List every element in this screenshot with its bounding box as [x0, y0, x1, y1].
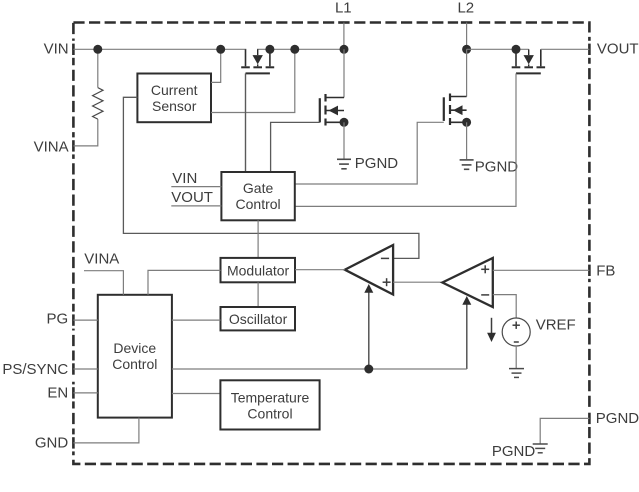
pin label PGND (right) [596, 410, 639, 427]
wire Q3 source to PGND [466, 122, 468, 159]
node VIN/resistor junction [93, 45, 102, 54]
wire U6 inverting input to VREF [493, 295, 516, 318]
pin label EN [47, 385, 68, 402]
wire EN pin [73, 392, 97, 394]
svg-text:VINA: VINA [34, 139, 69, 156]
svg-text:Control: Control [112, 356, 157, 372]
wire Q1 gate to gate control [245, 73, 247, 172]
node VINA internal label [84, 251, 119, 268]
ground (below VREF) [509, 369, 524, 378]
wire current sensor upper tap to VIN rail [211, 49, 221, 82]
current sensor U1 [137, 74, 211, 123]
node current sensor tap right [290, 45, 299, 54]
svg-text:Current: Current [151, 82, 198, 98]
wire Q4 gate to gate control [295, 73, 516, 206]
ground PGND (bottom right) [492, 443, 548, 460]
transistor Q1 (high-side P-MOSFET, input switch) [241, 49, 274, 73]
diode Q4 body diode [524, 49, 534, 66]
svg-text:PS/SYNC: PS/SYNC [2, 361, 68, 378]
node VOUT input label [171, 189, 213, 206]
svg-text:GND: GND [35, 435, 69, 452]
pin label FB [596, 262, 615, 279]
svg-text:PGND: PGND [492, 443, 536, 460]
node VIN input label [172, 170, 197, 187]
node Q2 source junction [340, 118, 349, 127]
wire PG pin [73, 319, 97, 321]
svg-text:L2: L2 [457, 0, 474, 17]
wire GND pin to device control [73, 418, 138, 443]
svg-text:L1: L1 [335, 0, 352, 17]
ground PGND (under Q3) [460, 158, 519, 175]
node Q4 source junction [512, 45, 521, 54]
node L1 junction [340, 45, 349, 54]
node VREF label [536, 316, 576, 333]
wire VIN rail (VIN to switch A source) [73, 48, 246, 50]
svg-text:Temperature: Temperature [231, 389, 310, 405]
wire PGND pin to ground [540, 418, 589, 443]
svg-text:Device: Device [113, 340, 156, 356]
pin label PG [47, 311, 69, 328]
wire modulator to oscillator [257, 282, 259, 307]
wire Q2 gate to gate control [271, 122, 320, 172]
modulator U3 [221, 258, 296, 282]
node control rail junction [364, 365, 373, 374]
wire L1 pin riser [343, 23, 345, 50]
wire current sensor output (left, to comparator inverting input) [123, 97, 419, 258]
svg-text:VREF: VREF [536, 316, 576, 333]
device control U7 [98, 295, 172, 418]
wire device control to oscillator [172, 319, 221, 321]
node L2 junction [462, 45, 471, 54]
svg-text:PG: PG [47, 311, 69, 328]
svg-text:Control: Control [247, 405, 292, 421]
wire current reference arrow [487, 318, 496, 342]
svg-text:VIN: VIN [44, 41, 69, 58]
svg-text:VIN: VIN [172, 170, 197, 187]
wire device control to modulator [148, 270, 221, 294]
wire L2 pin riser [466, 23, 468, 50]
wire VINA to device control [84, 271, 123, 295]
pin label L1 [335, 0, 352, 17]
wire U5 ramp arrow from control rail [364, 284, 373, 369]
pin label GND [35, 435, 69, 452]
wire VINA pin [73, 119, 97, 146]
svg-text:FB: FB [596, 262, 615, 279]
oscillator U4 [221, 307, 296, 330]
wire current sensor lower tap to switch A drain [211, 49, 295, 112]
resistor (VIN to VINA) [93, 49, 103, 119]
wire Q3 gate to gate control [295, 122, 444, 184]
svg-text:Sensor: Sensor [152, 98, 197, 114]
pin label VIN [44, 41, 69, 58]
node current sensor tap left [216, 45, 225, 54]
wire U5 noninverting input from error amp output [393, 281, 442, 283]
pin label VOUT [597, 41, 639, 58]
temperature control U8 [220, 380, 319, 429]
wire control rail (device control to amplifiers) [172, 368, 467, 370]
wire VREF to ground [515, 346, 517, 368]
svg-text:PGND: PGND [475, 158, 519, 175]
IC package boundary (dashed) [71, 21, 591, 464]
wire VOUT input to gate control [171, 205, 221, 207]
wire VIN input to gate control [171, 186, 221, 188]
svg-text:Gate: Gate [243, 180, 274, 196]
wire U6 soft-start arrow from control rail [462, 296, 471, 369]
error amplifier U6 [442, 258, 492, 307]
wire gate control to modulator [257, 220, 259, 259]
wire L2 rail to switch D [467, 48, 529, 50]
wire device control to temperature control [172, 393, 221, 395]
pin label PS/SYNC [2, 361, 68, 378]
wire PS/SYNC pin [73, 368, 97, 370]
transistor Q3 (low-side N-MOSFET at L2) [444, 49, 467, 125]
svg-text:PGND: PGND [355, 155, 399, 172]
gate control U2 [221, 172, 294, 220]
VREF source V1 [502, 318, 530, 346]
svg-text:VINA: VINA [84, 251, 119, 268]
wire Q2 source to PGND [343, 122, 345, 158]
pin label VINA [34, 139, 69, 156]
wire modulator output to comparator U5 [295, 269, 345, 271]
svg-text:EN: EN [47, 385, 68, 402]
transistor Q4 (high-side P-MOSFET, output switch) [512, 49, 545, 73]
svg-text:PGND: PGND [596, 410, 639, 427]
ground PGND (under Q2) [337, 155, 398, 172]
node switch A drain/rail [265, 45, 274, 54]
node Q3 source junction [462, 118, 471, 127]
transistor Q2 (low-side N-MOSFET at L1) [320, 49, 344, 125]
svg-text:VOUT: VOUT [171, 189, 213, 206]
svg-text:Oscillator: Oscillator [229, 311, 288, 327]
comparator U5 (PWM comparator) [345, 245, 393, 295]
svg-text:Modulator: Modulator [227, 262, 290, 278]
wire switch A drain rail to L1 [257, 48, 344, 50]
svg-text:Control: Control [236, 196, 281, 212]
wire FB to U6 noninverting input [493, 269, 590, 271]
diode Q1 body diode [253, 49, 263, 66]
pin label L2 [457, 0, 474, 17]
wire VOUT rail [541, 48, 590, 50]
svg-text:VOUT: VOUT [597, 41, 639, 58]
